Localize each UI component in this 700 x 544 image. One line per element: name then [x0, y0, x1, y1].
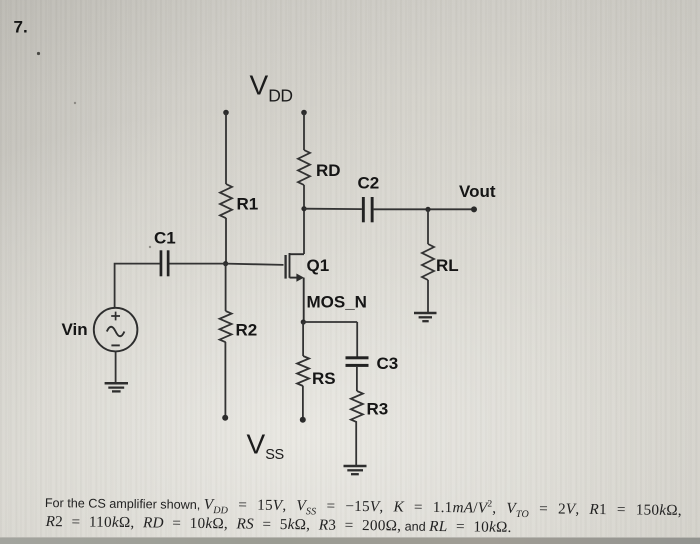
svg-text:Vin: Vin [62, 320, 88, 339]
wire Vin to C1 [115, 264, 160, 308]
node VDD terminal right (top of RD wire) [301, 110, 307, 116]
svg-text:RD: RD [316, 161, 341, 180]
node VDD terminal left (top of R1 wire) [223, 110, 229, 116]
svg-text:RL: RL [436, 256, 459, 275]
svg-text:VDD: VDD [250, 70, 293, 106]
node VSS terminal under RS [300, 417, 306, 423]
svg-text:R3: R3 [367, 400, 389, 419]
wire RD to drain junction [303, 185, 305, 254]
wire drain junction to C2 [304, 208, 362, 210]
svg-text:7.: 7. [14, 18, 28, 37]
speck dot 2 [74, 102, 76, 104]
minus sign in Vin [111, 344, 119, 346]
ground under Vin [105, 383, 128, 391]
arrow on Q1 source [296, 274, 304, 282]
wire RL to ground [427, 280, 429, 313]
resistor RS [297, 356, 309, 386]
svg-text:Vout: Vout [459, 182, 496, 201]
wire R2 to VSS terminal [224, 342, 226, 418]
svg-text:RS: RS [312, 369, 336, 388]
wire C3 to R3 [356, 367, 358, 391]
wire R3 to ground [355, 422, 357, 466]
speck dot [37, 52, 40, 55]
node gate junction [223, 261, 228, 266]
svg-text:R1: R1 [237, 195, 259, 214]
source Vin circle [94, 308, 138, 352]
capacitor C1 [160, 250, 170, 276]
wire C2 to Vout [374, 208, 474, 210]
svg-text:VSS: VSS [247, 429, 284, 464]
speck dot 3 [149, 246, 151, 248]
wire source node to C3 branch [303, 321, 357, 323]
svg-text:C2: C2 [358, 174, 380, 193]
node VSS terminal under R2 [222, 415, 228, 421]
svg-text:Q1: Q1 [307, 256, 330, 275]
plus sign in Vin [111, 312, 120, 321]
node RL junction [425, 207, 430, 212]
wire junction to R2 [225, 264, 227, 311]
wire junction to RL [427, 209, 429, 244]
wire gate [226, 264, 284, 265]
wire Vin to ground [115, 351, 117, 383]
caption text [45, 494, 700, 539]
node Vout terminal [471, 206, 477, 212]
resistor RL [422, 244, 434, 280]
svg-text:C1: C1 [154, 229, 176, 248]
node source junction [301, 319, 306, 324]
wire RS to VSS terminal [302, 386, 304, 420]
capacitor C2 [362, 197, 374, 222]
svg-text:R2: R2 [236, 321, 258, 340]
svg-text:MOS_N: MOS_N [307, 293, 367, 312]
wire node to RS [302, 322, 304, 356]
transistor Q1 [286, 253, 304, 322]
wire VDD to RD [303, 113, 305, 151]
ground under RL [414, 313, 437, 321]
resistor R3 [351, 391, 363, 422]
wire VDD to R1 [225, 113, 227, 185]
svg-text:C3: C3 [377, 354, 399, 373]
ground under R3 [344, 466, 367, 474]
capacitor C3 [346, 356, 369, 367]
resistor RD [298, 150, 310, 185]
wire C1 to junction [170, 263, 226, 265]
resistor R2 [220, 311, 232, 342]
wire R1 to gate junction [225, 218, 227, 264]
sine wave in Vin [107, 327, 125, 337]
resistor R1 [220, 184, 232, 218]
node drain junction [301, 206, 306, 211]
wire node to C3 [356, 322, 358, 357]
